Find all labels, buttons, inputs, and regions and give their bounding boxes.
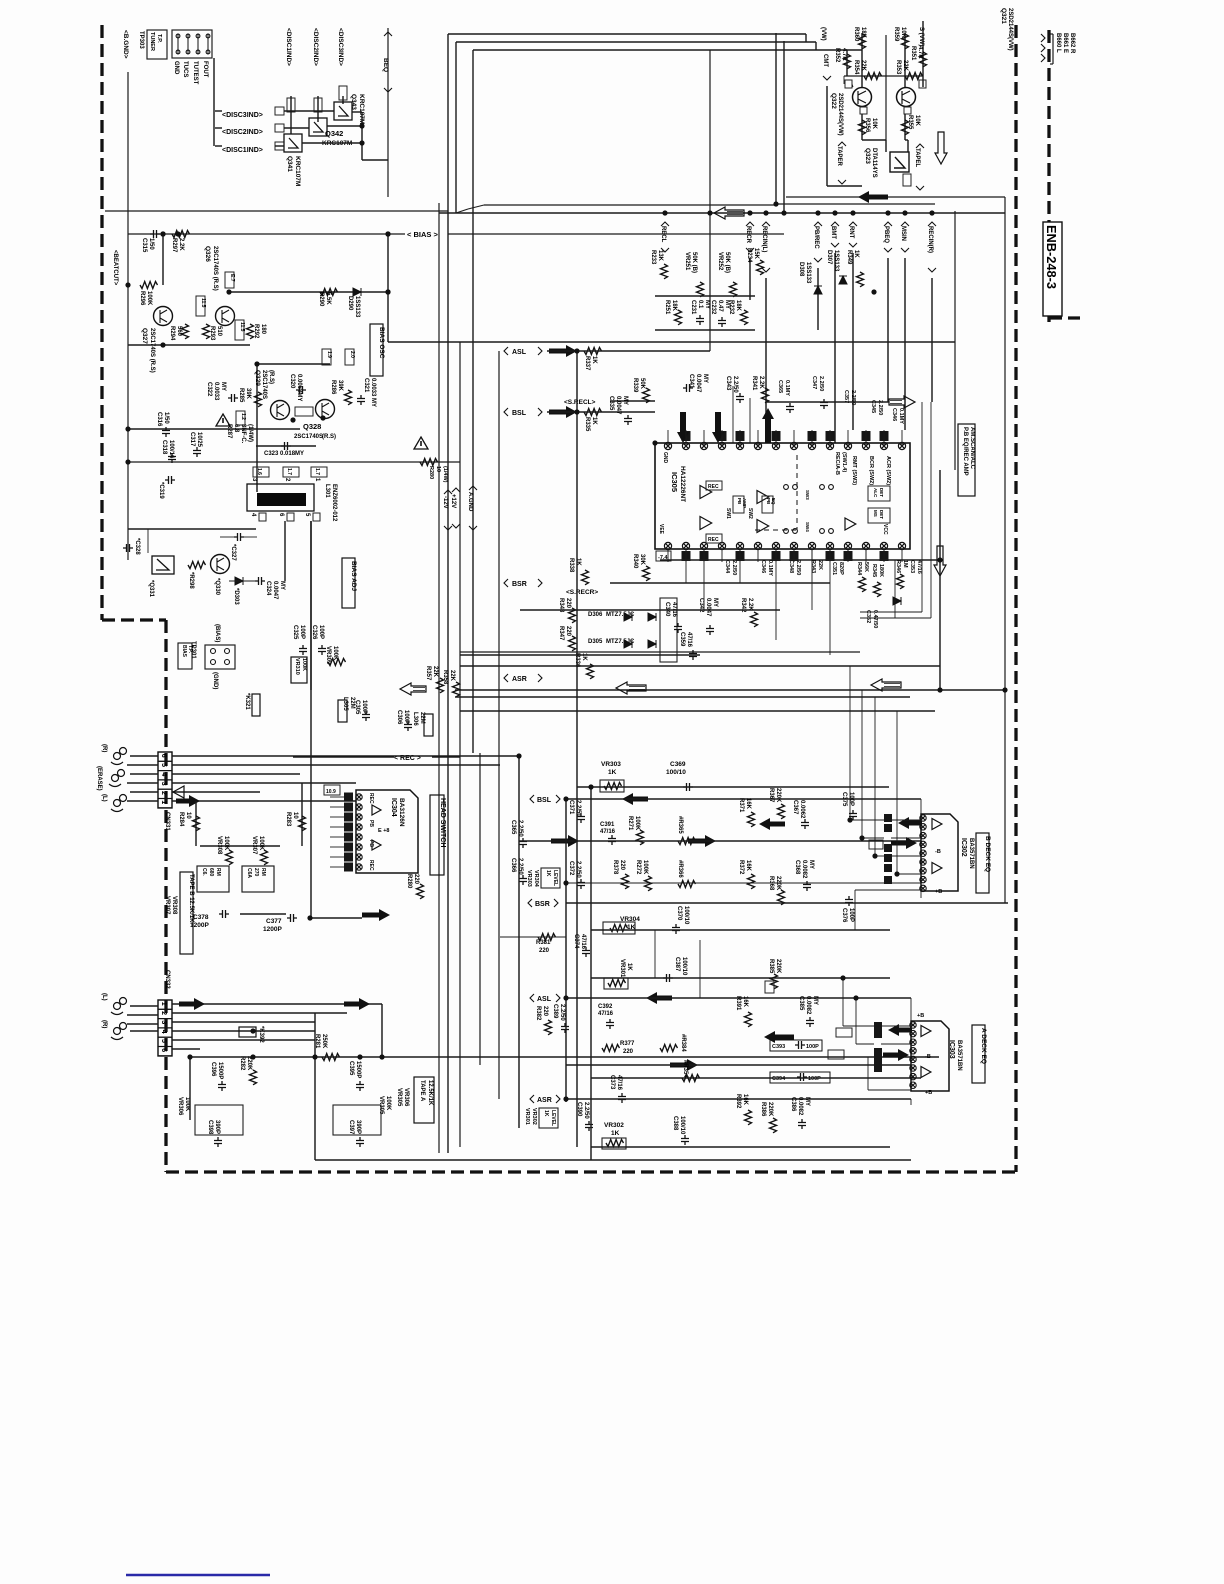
wire IC305 right drop a [921, 402, 923, 612]
junction [850, 210, 855, 215]
svg-text:R360: R360 [853, 27, 859, 42]
wire pin stub top [901, 430, 903, 446]
svg-text:HEAD SWITCH: HEAD SWITCH [439, 798, 446, 847]
svg-text:3NF-C.: 3NF-C. [240, 424, 246, 444]
connector CN332 cell 4 [158, 1028, 172, 1037]
right dashed border [1014, 25, 1017, 1172]
wire C323 [256, 445, 316, 447]
label box HEAD SWITCH [430, 795, 444, 875]
wire [1050, 63, 1053, 65]
warning triangle R280 [414, 437, 428, 449]
svg-text:C306: C306 [396, 710, 402, 725]
pin box [344, 863, 353, 872]
wire [128, 428, 300, 430]
op-amp IC303b [921, 1067, 931, 1078]
pin IC305 bottom 7 [772, 542, 779, 549]
coil L306 [424, 714, 433, 736]
svg-text:VEE: VEE [658, 524, 664, 535]
wire RNT [852, 253, 854, 430]
junction [781, 210, 786, 215]
resistor R232 [741, 310, 748, 325]
pin box IC303 [874, 1030, 882, 1038]
svg-text:1K: 1K [543, 1110, 549, 1117]
wire left rail C [472, 50, 474, 753]
svg-text:1500P: 1500P [355, 1061, 361, 1078]
capacitor C335 [624, 415, 632, 425]
signal arrow ASR mid [670, 1059, 698, 1071]
svg-text:R391: R391 [735, 996, 741, 1011]
svg-text:C385: C385 [798, 996, 804, 1011]
wire [703, 420, 705, 443]
svg-text:220: 220 [619, 860, 625, 871]
svg-text:2SC1740S (R.S): 2SC1740S (R.S) [212, 246, 218, 291]
switch contact [793, 529, 798, 534]
pin IC303-3 [910, 1039, 916, 1045]
connector CN331 cell 3 [158, 780, 172, 789]
wire [860, 611, 922, 613]
svg-text:(R.S): (R.S) [268, 370, 274, 384]
chevron [528, 899, 532, 907]
svg-text:16K: 16K [745, 798, 751, 810]
svg-text:R272: R272 [635, 860, 641, 875]
resistor R297 [172, 231, 189, 238]
dashed inner line [796, 455, 798, 530]
capacitor C385 [806, 1017, 814, 1027]
resistor R234 [757, 260, 764, 275]
svg-text:50K (B): 50K (B) [691, 252, 697, 273]
chevron RNT [849, 222, 857, 226]
wire [894, 560, 896, 618]
pin IC305 top 2 [682, 442, 689, 449]
diode D305 [624, 640, 632, 648]
junction [662, 210, 667, 215]
capacitor C320 [296, 386, 306, 394]
wire head [127, 782, 158, 784]
pin IC305 bottom 5 [736, 542, 743, 549]
svg-text:<DISC3IND>: <DISC3IND> [337, 28, 344, 66]
wire CN332 p2 [172, 1012, 347, 1014]
pin [211, 660, 216, 665]
pin box bottom [844, 551, 853, 561]
pin IC304-4 [356, 824, 362, 830]
svg-text:BMT: BMT [830, 226, 836, 239]
svg-text:1K: 1K [545, 870, 551, 877]
svg-text:R282: R282 [239, 1056, 245, 1071]
svg-text:100K: 100K [301, 658, 307, 671]
svg-text:1/50: 1/50 [163, 412, 169, 424]
svg-text:C389: C389 [552, 1004, 558, 1019]
resistor R360 [859, 34, 866, 49]
wire DISC1 drop [290, 96, 292, 134]
pin box IC303 [874, 1064, 882, 1072]
wire [204, 563, 210, 565]
svg-text:1SS133: 1SS133 [354, 296, 360, 318]
op-amp IC305b [700, 517, 712, 530]
chevron [530, 994, 534, 1002]
connector 2x2 [205, 645, 235, 669]
svg-text:MSIN: MSIN [900, 226, 906, 241]
svg-text:IC305: IC305 [670, 472, 679, 492]
svg-text:MY: MY [622, 396, 628, 405]
pin IC305 bottom 8 [790, 542, 797, 549]
svg-text:GND: GND [662, 452, 668, 464]
wire S VW rail [922, 21, 924, 87]
resistor R368 [778, 890, 785, 905]
svg-text:+B: +B [935, 889, 942, 895]
chevron [884, 248, 892, 252]
junction [175, 231, 180, 236]
pin IC305 bottom 9 [808, 542, 815, 549]
chevron RECL [661, 222, 669, 226]
svg-text:PB/REC: PB/REC [813, 226, 819, 249]
chevron [444, 526, 452, 530]
pin IC304-8 [356, 864, 362, 870]
wire head [130, 773, 158, 775]
svg-text:B661 E: B661 E [1062, 33, 1068, 53]
op-amp IC302a [932, 819, 942, 830]
svg-text:R352: R352 [834, 48, 840, 63]
wire [842, 288, 844, 330]
resistor R382 [545, 1020, 552, 1035]
wire [289, 420, 291, 467]
wire mid a deck [566, 1064, 911, 1066]
svg-text:C232: C232 [710, 300, 716, 315]
capacitor C398 [214, 1137, 222, 1147]
pin IC305 bottom 13 [880, 542, 887, 549]
svg-text:10.9: 10.9 [326, 789, 336, 795]
svg-text:Q329: Q329 [254, 370, 261, 386]
wire ASL a deck [566, 997, 911, 999]
wire [520, 609, 780, 611]
svg-text:R234: R234 [746, 248, 752, 263]
svg-text:MY: MY [808, 860, 814, 869]
wire [330, 856, 344, 858]
pin box [344, 843, 353, 852]
wire pin stub bottom [865, 549, 867, 562]
wire [240, 913, 286, 915]
junction [652, 440, 657, 445]
pin IC305 top 1 [664, 442, 671, 449]
svg-text:R344: R344 [856, 562, 862, 576]
cap box C394 [770, 1072, 830, 1083]
svg-text:*C319: *C319 [158, 482, 164, 499]
wire RECR [749, 258, 751, 300]
svg-text:220: 220 [623, 1049, 634, 1055]
signal arrow left b deck [759, 818, 785, 830]
signal arrow CN332a [179, 998, 205, 1010]
svg-text:ASR: ASR [537, 1097, 552, 1104]
wire interdeck a [654, 930, 656, 978]
wire [891, 837, 921, 839]
svg-text:2.2/50: 2.2/50 [583, 1102, 589, 1119]
junction [574, 348, 579, 353]
pin IC305 top 5 [736, 442, 743, 449]
junction [385, 289, 390, 294]
wire CN332 p1 [172, 1003, 382, 1005]
wire [483, 350, 504, 352]
svg-text:R297: R297 [171, 238, 177, 253]
svg-text:1K: 1K [626, 963, 632, 971]
chevron [823, 76, 831, 80]
svg-text:47/16: 47/16 [616, 1075, 622, 1091]
wire R381 [500, 936, 566, 938]
connector CN332 cell 1 [158, 1000, 172, 1009]
resistor R346 sym [897, 574, 904, 589]
pin IC304-2 [356, 804, 362, 810]
junction [254, 361, 259, 366]
svg-text:100P: 100P [808, 1076, 821, 1082]
svg-text:C392: C392 [598, 1004, 613, 1010]
resistor R280b [420, 459, 438, 466]
svg-text:10K: 10K [914, 115, 920, 127]
svg-text:R284: R284 [178, 812, 184, 827]
wire [256, 1030, 315, 1032]
svg-text:*Q331: *Q331 [148, 580, 154, 598]
svg-text:L301: L301 [324, 484, 330, 498]
wire [843, 1025, 874, 1027]
svg-text:*K321: *K321 [244, 693, 250, 710]
cap box C393 [770, 1040, 822, 1051]
svg-text:47/16: 47/16 [916, 560, 922, 574]
wire head [127, 764, 158, 766]
pin box bottom [700, 551, 709, 561]
connector CN331 [158, 752, 172, 808]
svg-text:220K: 220K [767, 1102, 773, 1117]
svg-text:2.2/50: 2.2/50 [575, 861, 581, 878]
capacitor C366 [519, 875, 527, 885]
wire [699, 296, 701, 305]
pot VR252 [730, 282, 737, 297]
wire left rail D [438, 203, 440, 1153]
svg-text:R296: R296 [139, 291, 145, 306]
pin IC302-1 [920, 815, 926, 821]
svg-text:R340: R340 [632, 554, 638, 569]
svg-text:T.P.: T.P. [187, 645, 193, 654]
junction [563, 880, 568, 885]
pin box E10.9 a [836, 1028, 852, 1037]
pin IC304-5 [356, 834, 362, 840]
resistor R282 [250, 1070, 257, 1085]
signal arrow black left top [858, 191, 888, 203]
svg-text:1.9: 1.9 [326, 351, 332, 358]
svg-text:B660 L: B660 L [1055, 33, 1061, 53]
switch contact [784, 485, 789, 490]
label box TAPE B [180, 872, 193, 954]
svg-text:C335: C335 [608, 396, 614, 411]
wire [885, 140, 887, 152]
wire right loop vertical [954, 211, 956, 470]
svg-text:TAPE B 12.5K/1K: TAPE B 12.5K/1K [188, 874, 194, 923]
svg-text:1K: 1K [853, 250, 859, 258]
svg-text:ENB-248-3: ENB-248-3 [1044, 225, 1059, 289]
wire [920, 799, 922, 814]
svg-text:100K: 100K [184, 1097, 190, 1112]
pin [196, 34, 200, 38]
svg-text:100K: 100K [385, 1096, 391, 1111]
box [314, 98, 322, 112]
wire [881, 1043, 911, 1045]
svg-text:C393: C393 [772, 1044, 785, 1050]
svg-text:(VW): (VW) [820, 27, 826, 41]
chevron BMT [831, 222, 839, 226]
pin IC305 top 4 [718, 442, 725, 449]
capacitor C389 [561, 1023, 569, 1033]
pin [225, 660, 230, 665]
pin box E10.9 a2 [828, 1050, 844, 1059]
pin box E1.9 [322, 349, 331, 365]
chevron [530, 1095, 534, 1103]
wire interdeck b [699, 940, 701, 998]
connector CN331 cell 6 [158, 752, 172, 761]
wire BSL path [519, 840, 921, 842]
wire [1050, 33, 1053, 35]
resistor R349 [857, 272, 864, 287]
wire pin stub bottom [757, 549, 759, 562]
pin IC305 bottom 10 [826, 542, 833, 549]
chevron [831, 243, 839, 247]
svg-text:EQ: EQ [771, 498, 776, 505]
capacitor C396 [218, 1081, 226, 1091]
transformer L301 outline [247, 484, 314, 511]
connector CN331 cell 4 [158, 771, 172, 780]
svg-text:VR301: VR301 [524, 1108, 530, 1125]
transistor Q342 [309, 118, 327, 136]
svg-text:<DISC3IND>: <DISC3IND> [222, 112, 263, 119]
wire CN331 p6 [172, 755, 519, 757]
resistor R272 [645, 876, 652, 891]
svg-text:0.0082: 0.0082 [801, 860, 807, 879]
svg-text:47/16: 47/16 [580, 934, 586, 950]
resistor R285 [255, 392, 262, 407]
resistor [682, 1075, 700, 1082]
wire IC305 right drop b [930, 402, 932, 618]
chevron PBEQ [884, 222, 892, 226]
wire [162, 234, 164, 285]
pin IC303-1 [910, 1022, 916, 1028]
svg-text:5.5K: 5.5K [325, 292, 331, 305]
pin box IC302 [884, 854, 892, 862]
pin box IC302 [884, 864, 892, 872]
wire [862, 837, 884, 839]
chevron [504, 579, 508, 587]
wire pin stub bottom [685, 549, 687, 562]
connector CN331 cell 1 [158, 799, 172, 808]
svg-text:R251: R251 [664, 300, 670, 315]
svg-text:D307: D307 [826, 250, 832, 265]
wire [184, 339, 186, 345]
svg-text:1.2: 1.2 [240, 413, 246, 420]
diode D305 pair [648, 640, 656, 648]
svg-text:PBEQ: PBEQ [883, 226, 889, 243]
op-amp IC303a [921, 1026, 931, 1037]
svg-text:PB: PB [737, 498, 742, 505]
chevron PB/REC [814, 222, 822, 226]
pin box 5 [313, 513, 320, 521]
wire into pin [732, 386, 734, 443]
wire trunk deck rail2 [590, 787, 592, 1160]
chevron [762, 268, 770, 272]
svg-text:R354: R354 [853, 60, 859, 75]
junction [160, 231, 165, 236]
open arrow left mid2 [871, 679, 901, 691]
chevron [554, 899, 558, 907]
svg-text:ALC: ALC [873, 488, 878, 498]
svg-text:VR306: VR306 [403, 1088, 409, 1107]
wire CN332 p3 [172, 1021, 315, 1023]
svg-text:1/50: 1/50 [148, 238, 154, 250]
wire pin drop [775, 549, 777, 640]
resistor R372 [748, 874, 755, 889]
wire pin stub top [667, 430, 669, 446]
inner box MS DET [868, 508, 890, 523]
inner box REC1 [706, 481, 722, 490]
svg-text:C374: C374 [573, 934, 579, 949]
pin box VEE [656, 551, 671, 561]
svg-text:(R.S): (R.S) [322, 434, 336, 440]
pin IC305 bottom 1 [664, 542, 671, 549]
svg-text:VCC: VCC [882, 524, 888, 535]
svg-text:RMT (SW3): RMT (SW3) [851, 456, 857, 485]
wire BIAS line right [448, 233, 784, 235]
box [339, 86, 347, 100]
wire [841, 150, 843, 186]
resistor R286 [345, 390, 352, 405]
chevron [849, 243, 857, 247]
label box 1K LEVEL A [539, 1108, 558, 1128]
svg-text:100P: 100P [299, 625, 305, 639]
svg-text:15K: 15K [753, 248, 759, 260]
chevron B660 [1041, 34, 1045, 42]
wire bus hook [805, 34, 807, 42]
wire bus below IC305 [660, 559, 940, 561]
svg-text:R347: R347 [558, 626, 564, 641]
svg-text:R342: R342 [740, 598, 746, 613]
svg-text:56K: 56K [863, 562, 869, 572]
svg-text:C370: C370 [676, 906, 682, 921]
wire [162, 285, 164, 306]
wire [861, 114, 863, 140]
wire head [127, 800, 158, 802]
capacitor C373 [618, 1093, 626, 1103]
capacitor C319 [165, 476, 175, 484]
pin IC302-3 [920, 832, 926, 838]
wire [852, 84, 853, 87]
wire trunk [314, 1013, 316, 1160]
wire drop IC302 c [874, 697, 876, 856]
connector CN331 cell 2 [158, 789, 172, 798]
svg-text:1SS133: 1SS133 [833, 250, 839, 272]
svg-text:ENZ6002-012: ENZ6002-012 [331, 484, 337, 522]
wire Q322 collector [861, 33, 863, 88]
svg-text:+12V: +12V [450, 494, 456, 508]
junction [747, 210, 752, 215]
svg-text:1SS133: 1SS133 [805, 262, 811, 284]
wire [881, 1025, 911, 1027]
label box A DECK EQ [972, 1025, 985, 1083]
pin box top [736, 431, 745, 441]
pin box top [826, 431, 835, 441]
capacitor C343 [736, 393, 744, 403]
pin IC305 top 12 [862, 442, 869, 449]
wire [891, 855, 921, 857]
wire mid rail [885, 35, 887, 140]
svg-text:R381: R381 [536, 940, 551, 946]
wire main fan bus [439, 212, 1005, 214]
svg-text:C365: C365 [777, 380, 783, 393]
svg-text:D308: D308 [798, 262, 804, 277]
svg-text:DET: DET [879, 488, 884, 497]
pin [206, 34, 210, 38]
